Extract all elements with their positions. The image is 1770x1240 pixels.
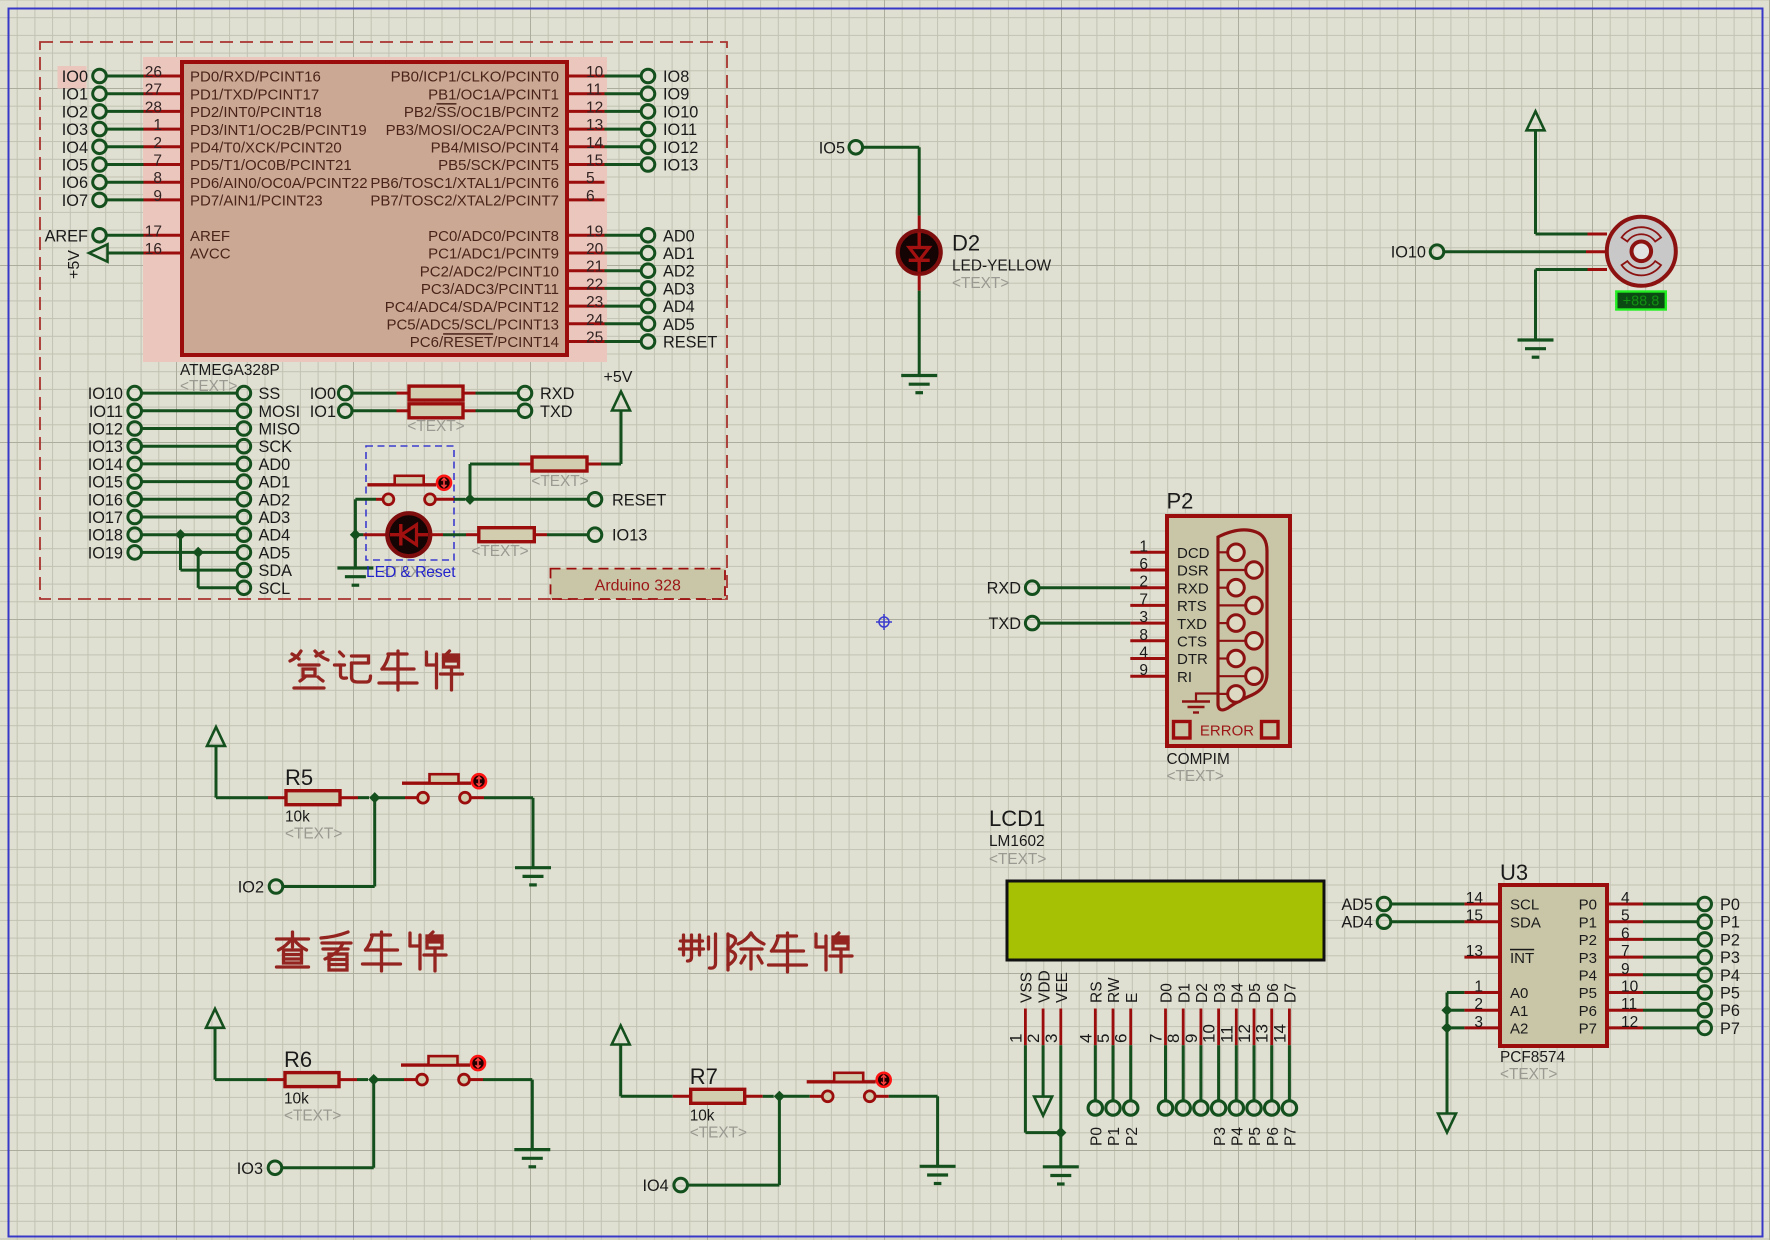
- svg-text:AD5: AD5: [259, 544, 291, 562]
- svg-text:15: 15: [586, 153, 603, 170]
- svg-text:AD1: AD1: [259, 474, 291, 492]
- terminal on LCD pin D4: [1229, 1045, 1246, 1146]
- svg-text:IO9: IO9: [663, 86, 689, 104]
- svg-text:14: 14: [586, 135, 604, 152]
- svg-text:IO13: IO13: [88, 438, 123, 456]
- svg-text:PB3/MOSI/OC2A/PCINT3: PB3/MOSI/OC2A/PCINT3: [386, 122, 559, 139]
- terminal RESET: [588, 491, 666, 509]
- wire button to LED branch: [350, 499, 361, 540]
- sheet origin marker: [876, 614, 892, 630]
- P2 pin 1 DCD: [1130, 538, 1209, 562]
- pin 24 PC5 with terminal AD5: [386, 312, 694, 334]
- svg-text:R7: R7: [690, 1064, 718, 1089]
- terminal pair IO17 to AD3: [88, 509, 291, 527]
- motor rpm display +88.8: [1616, 292, 1666, 310]
- terminal pair IO10 to SS: [88, 385, 281, 403]
- terminal on LCD pin D2: [1194, 1045, 1208, 1115]
- svg-text:PD6/AIN0/OC0A/PCINT22: PD6/AIN0/OC0A/PCINT22: [190, 175, 368, 192]
- terminal pair IO15 to AD1: [88, 474, 291, 492]
- display LCD1 LM1602: [989, 806, 1324, 960]
- svg-text:P0: P0: [1720, 896, 1740, 914]
- LED D1 (pin13 indicator): [355, 513, 430, 556]
- wire TXD to P2: [1039, 622, 1130, 625]
- svg-text:6: 6: [1139, 556, 1148, 573]
- svg-text:8: 8: [1139, 627, 1148, 644]
- svg-text:PB6/TOSC1/XTAL1/PCINT6: PB6/TOSC1/XTAL1/PCINT6: [370, 175, 559, 192]
- svg-text:IO11: IO11: [663, 121, 697, 139]
- svg-text:P2: P2: [1124, 1127, 1141, 1146]
- svg-text:AREF: AREF: [45, 227, 88, 245]
- U3 pin 13 INT: [1464, 943, 1534, 967]
- terminal pair IO11 to MOSI: [89, 403, 300, 421]
- terminal TXD (P2): [988, 615, 1039, 633]
- svg-text:RESET: RESET: [612, 491, 666, 509]
- pin 16 AVCC with +5V power terminal: [66, 241, 231, 279]
- terminal SCL: [237, 580, 290, 598]
- P2 pin 9 RI: [1130, 662, 1192, 686]
- ground (R7 section): [920, 1096, 956, 1183]
- svg-text:RTS: RTS: [1177, 598, 1207, 615]
- pin 11 PB1 with terminal IO9: [428, 82, 689, 104]
- svg-text:14: 14: [1270, 1024, 1289, 1043]
- svg-text:PB5/SCK/PCINT5: PB5/SCK/PCINT5: [438, 157, 559, 174]
- svg-text:E: E: [1124, 993, 1141, 1003]
- pin 9 PD7 with terminal IO7: [62, 188, 323, 210]
- pin 6 PB7 (no connection): [370, 188, 604, 210]
- svg-text:LCD1: LCD1: [989, 806, 1045, 831]
- caption 查看车牌 (view plate): [277, 932, 447, 971]
- svg-text:IO13: IO13: [663, 157, 698, 175]
- wire IO5 to D2: [863, 147, 920, 231]
- svg-text:P3: P3: [1579, 950, 1597, 967]
- wire LCD VSS to ground net: [1025, 1045, 1060, 1132]
- terminal AD4 (U3 SDA): [1341, 914, 1464, 932]
- svg-text:6: 6: [1621, 925, 1630, 942]
- motor M1 (DC motor): [1607, 217, 1676, 286]
- LCD1 pin 9 D2: [1182, 983, 1211, 1045]
- push-button reset: [355, 476, 465, 505]
- terminal on LCD pin E: [1124, 1045, 1141, 1146]
- pin 28 PD2 with terminal IO2: [62, 99, 322, 121]
- push-button (R7 section): [779, 1073, 937, 1102]
- svg-text:CTS: CTS: [1177, 634, 1207, 651]
- op: selection highlight around ATMEGA328P: [143, 57, 607, 362]
- svg-text:AD1: AD1: [663, 245, 695, 263]
- svg-text:1: 1: [153, 117, 162, 134]
- svg-text:IO2: IO2: [62, 103, 88, 121]
- svg-text:27: 27: [145, 82, 162, 99]
- terminal RXD (P2): [987, 580, 1039, 598]
- svg-text:AD0: AD0: [259, 456, 291, 474]
- svg-text:AD4: AD4: [1341, 914, 1373, 932]
- svg-text:IO18: IO18: [88, 527, 123, 545]
- terminal on LCD pin D7: [1282, 1045, 1299, 1146]
- svg-text:10k: 10k: [285, 809, 310, 826]
- svg-text:<TEXT>: <TEXT>: [471, 543, 528, 560]
- svg-text:P2: P2: [1167, 489, 1194, 514]
- svg-text:RXD: RXD: [540, 385, 574, 403]
- pin 7 PD5 with terminal IO5: [62, 153, 352, 175]
- ground (motor): [1518, 338, 1554, 341]
- svg-text:RESET: RESET: [663, 334, 717, 352]
- svg-text:P1: P1: [1579, 914, 1597, 931]
- push-button (R6 section): [374, 1056, 533, 1085]
- U3 pin 4 P0 with terminal P0: [1579, 890, 1740, 914]
- svg-text:PC1/ADC1/PCINT9: PC1/ADC1/PCINT9: [428, 246, 559, 263]
- svg-text:<TEXT>: <TEXT>: [989, 851, 1046, 868]
- svg-text:SCK: SCK: [259, 438, 293, 456]
- ground (LED branch): [337, 535, 373, 586]
- P2 pin 3 TXD: [1130, 609, 1207, 633]
- svg-text:U3: U3: [1500, 860, 1528, 885]
- svg-text:4: 4: [1139, 645, 1148, 662]
- LCD1 pin 6 E: [1112, 993, 1141, 1046]
- svg-text:13: 13: [1466, 943, 1483, 960]
- svg-text:7: 7: [1621, 943, 1630, 960]
- resistor R7 10k: [621, 1064, 774, 1142]
- svg-text:5: 5: [586, 170, 595, 187]
- svg-text:D4: D4: [1230, 983, 1247, 1003]
- LED D2 LED-YELLOW: [898, 231, 1052, 292]
- svg-text:<TEXT>: <TEXT>: [285, 826, 342, 843]
- svg-text:P0: P0: [1089, 1127, 1106, 1146]
- svg-text:SCL: SCL: [1510, 897, 1539, 914]
- terminal on LCD pin RS: [1088, 1045, 1105, 1146]
- wire R6 node to IO3: [282, 1080, 374, 1168]
- resistor LED series to IO13: [430, 528, 588, 560]
- svg-text:AD5: AD5: [1341, 896, 1373, 914]
- svg-text:10k: 10k: [690, 1107, 715, 1124]
- caption 删除车牌 (delete plate): [680, 933, 853, 972]
- svg-text:10: 10: [586, 64, 604, 81]
- U3 pin 2 A1: [1464, 996, 1528, 1020]
- svg-text:AD3: AD3: [259, 509, 291, 527]
- svg-text:8: 8: [1164, 1034, 1183, 1043]
- terminal pair IO14 to AD0: [88, 456, 291, 474]
- svg-text:PB7/TOSC2/XTAL2/PCINT7: PB7/TOSC2/XTAL2/PCINT7: [370, 193, 559, 210]
- ground (D2): [901, 274, 937, 393]
- svg-text:8: 8: [153, 170, 162, 187]
- svg-text:RS: RS: [1089, 981, 1106, 1003]
- terminal on LCD pin RW: [1106, 1045, 1123, 1146]
- svg-text:2: 2: [1474, 996, 1483, 1013]
- svg-text:AD3: AD3: [663, 280, 695, 298]
- svg-text:+5V: +5V: [604, 369, 633, 386]
- svg-text:PD1/TXD/PCINT17: PD1/TXD/PCINT17: [190, 86, 319, 103]
- svg-text:IO1: IO1: [310, 403, 336, 421]
- power +5V terminal (reset pull-up): [604, 369, 633, 464]
- svg-text:MISO: MISO: [259, 421, 301, 439]
- P2 pin 8 CTS: [1130, 627, 1207, 651]
- svg-text:IO4: IO4: [62, 139, 88, 157]
- svg-text:IO17: IO17: [88, 509, 123, 527]
- terminal on LCD pin D3: [1211, 1045, 1228, 1146]
- svg-text:4: 4: [1076, 1034, 1095, 1043]
- svg-text:1: 1: [1139, 538, 1148, 555]
- svg-text:P6: P6: [1265, 1127, 1282, 1146]
- svg-text:IO3: IO3: [237, 1160, 263, 1178]
- svg-text:IO6: IO6: [62, 174, 88, 192]
- svg-text:20: 20: [586, 241, 604, 258]
- svg-text:3: 3: [1139, 609, 1148, 626]
- terminal RXD: [518, 385, 574, 403]
- terminal IO5: [819, 139, 863, 157]
- svg-text:17: 17: [145, 223, 162, 240]
- svg-text:<TEXT>: <TEXT>: [407, 418, 464, 435]
- junction R6/button node: [368, 1074, 379, 1085]
- junction R5/button node: [369, 792, 380, 803]
- svg-text:AD4: AD4: [663, 298, 695, 316]
- resistor R6 10k: [215, 1047, 368, 1125]
- wire LCD VEE to ground: [1055, 1045, 1066, 1166]
- LCD1 pin 8 D1: [1164, 983, 1193, 1045]
- resistor R5 10k: [216, 765, 369, 843]
- svg-text:AD2: AD2: [663, 263, 695, 281]
- svg-text:<TEXT>: <TEXT>: [531, 473, 588, 490]
- terminal TXD: [518, 403, 572, 421]
- svg-text:RW: RW: [1106, 977, 1123, 1003]
- wire motor bottom pin to ground: [1536, 270, 1608, 340]
- P2 pin 6 DSR: [1130, 556, 1209, 580]
- terminal pair IO13 to SCK: [88, 438, 292, 456]
- svg-text:VSS: VSS: [1019, 972, 1036, 1003]
- wire RXD to P2: [1039, 586, 1130, 589]
- svg-text:+5V: +5V: [66, 250, 83, 279]
- svg-text:DTR: DTR: [1177, 651, 1208, 668]
- svg-text:2: 2: [153, 135, 162, 152]
- svg-text:PD7/AIN1/PCINT23: PD7/AIN1/PCINT23: [190, 193, 323, 210]
- wire U3 address pins A0 A1 A2 common: [1441, 993, 1464, 1114]
- P2 shield ground: [1182, 694, 1219, 713]
- svg-text:IO15: IO15: [88, 474, 123, 492]
- U3 pin 7 P3 with terminal P3: [1579, 943, 1740, 967]
- svg-text:IO14: IO14: [88, 456, 123, 474]
- svg-text:10: 10: [1200, 1024, 1219, 1043]
- svg-text:+88.8: +88.8: [1623, 293, 1660, 309]
- svg-text:IO5: IO5: [62, 157, 88, 175]
- svg-text:Arduino 328: Arduino 328: [595, 578, 681, 595]
- IC U1 ATMEGA328P body: [182, 62, 567, 355]
- pin 5 PB6 (no connection): [370, 170, 604, 192]
- svg-text:R5: R5: [285, 765, 313, 790]
- svg-text:P1: P1: [1720, 914, 1740, 932]
- svg-text:IO0: IO0: [62, 68, 88, 86]
- svg-text:3: 3: [1042, 1034, 1061, 1043]
- svg-text:7: 7: [153, 153, 162, 170]
- svg-text:1: 1: [1474, 979, 1483, 996]
- svg-text:23: 23: [586, 294, 603, 311]
- pin 8 PD6 with terminal IO6: [62, 170, 368, 192]
- svg-text:IO19: IO19: [88, 544, 123, 562]
- svg-text:AD5: AD5: [663, 316, 695, 334]
- svg-text:10: 10: [1621, 979, 1639, 996]
- svg-text:<TEXT>: <TEXT>: [952, 275, 1009, 292]
- svg-text:12: 12: [1621, 1014, 1638, 1031]
- svg-text:D6: D6: [1265, 983, 1282, 1003]
- svg-text:ERROR: ERROR: [1200, 723, 1254, 740]
- terminal AD5 (U3 SCL): [1341, 896, 1464, 914]
- svg-text:P7: P7: [1579, 1021, 1597, 1038]
- U3 pin 10 P5 with terminal P5: [1579, 979, 1740, 1003]
- Arduino 328 title box: [551, 569, 726, 599]
- LCD1 pin 7 D0: [1147, 983, 1176, 1045]
- svg-text:PCF8574: PCF8574: [1500, 1049, 1565, 1066]
- svg-text:PB1/OC1A/PCINT1: PB1/OC1A/PCINT1: [428, 86, 559, 103]
- svg-text:SS: SS: [259, 385, 281, 403]
- svg-text:D1: D1: [1176, 983, 1193, 1003]
- svg-text:PB2/SS/OC1B/PCINT2: PB2/SS/OC1B/PCINT2: [404, 104, 559, 121]
- pin 15 PB5 with terminal IO13: [438, 153, 698, 175]
- svg-text:IO12: IO12: [663, 139, 698, 157]
- svg-text:<TEXT>: <TEXT>: [690, 1124, 747, 1141]
- svg-text:LM1602: LM1602: [989, 833, 1045, 850]
- power +5V terminal (R7 section): [612, 1026, 630, 1097]
- P2 pin 7 RTS: [1130, 591, 1206, 615]
- svg-text:9: 9: [1182, 1034, 1201, 1043]
- svg-text:SDA: SDA: [259, 562, 293, 580]
- svg-text:21: 21: [586, 259, 603, 276]
- P2 DB9 face: [1218, 530, 1267, 710]
- svg-text:25: 25: [586, 330, 603, 347]
- svg-text:IO10: IO10: [663, 103, 698, 121]
- svg-text:19: 19: [586, 223, 603, 240]
- svg-text:IO11: IO11: [89, 403, 123, 421]
- wire IO10 to motor centre pin: [1444, 250, 1607, 253]
- U3 pin 15 SDA: [1464, 908, 1540, 932]
- svg-text:DCD: DCD: [1177, 545, 1210, 562]
- svg-text:P7: P7: [1720, 1020, 1740, 1038]
- LCD1 pin 11 D4: [1217, 983, 1246, 1045]
- svg-text:22: 22: [586, 276, 603, 293]
- pin 13 PB3 with terminal IO11: [386, 117, 697, 139]
- svg-text:2: 2: [1139, 574, 1148, 591]
- U3 pin 9 P4 with terminal P4: [1579, 961, 1740, 985]
- svg-text:VDD: VDD: [1036, 970, 1053, 1003]
- svg-text:11: 11: [1621, 996, 1637, 1013]
- svg-text:R6: R6: [284, 1047, 312, 1072]
- pin 1 PD3 with terminal IO3: [62, 117, 367, 139]
- U3 pin 12 P7 with terminal P7: [1579, 1014, 1740, 1038]
- svg-text:P4: P4: [1720, 967, 1740, 985]
- IC U3 PCF8574 body: [1500, 860, 1607, 1083]
- svg-text:15: 15: [1466, 908, 1483, 925]
- LCD1 pin 1 VSS: [1006, 972, 1035, 1045]
- svg-text:<TEXT>: <TEXT>: [1500, 1066, 1557, 1083]
- svg-text:5: 5: [1094, 1034, 1113, 1043]
- svg-text:AVCC: AVCC: [190, 246, 231, 263]
- svg-text:P6: P6: [1579, 1003, 1597, 1020]
- svg-text:7: 7: [1147, 1034, 1166, 1043]
- pin 21 PC2 with terminal AD2: [420, 259, 695, 281]
- P2 pin 2 RXD: [1130, 574, 1209, 598]
- svg-text:<TEXT>: <TEXT>: [1167, 768, 1224, 785]
- terminal IO0: [310, 385, 352, 403]
- pin 17 AREF with terminal AREF: [45, 223, 230, 245]
- svg-text:IO3: IO3: [62, 121, 88, 139]
- svg-text:AD4: AD4: [259, 527, 291, 545]
- LCD1 pin 4 RS: [1076, 981, 1105, 1045]
- svg-text:12: 12: [586, 99, 603, 116]
- pin 25 PC6 with terminal RESET: [410, 330, 718, 352]
- svg-text:D3: D3: [1212, 983, 1229, 1003]
- U3 pin 14 SCL: [1464, 890, 1539, 914]
- LCD1 pin 5 RW: [1094, 977, 1123, 1045]
- junction R7/button node: [774, 1091, 785, 1102]
- U3 pin 1 A0: [1464, 979, 1528, 1003]
- svg-text:PD4/T0/XCK/PCINT20: PD4/T0/XCK/PCINT20: [190, 140, 342, 157]
- svg-text:ATMEGA328P: ATMEGA328P: [180, 362, 280, 379]
- power terminal (down arrow) on U3 address net: [1438, 1114, 1456, 1133]
- svg-text:PC2/ADC2/PCINT10: PC2/ADC2/PCINT10: [420, 263, 559, 280]
- terminal IO3: [237, 1160, 282, 1178]
- ground (LCD): [1043, 1165, 1079, 1168]
- U3 pin 5 P1 with terminal P1: [1579, 908, 1740, 932]
- svg-text:P1: P1: [1106, 1127, 1123, 1146]
- wire IO18/AD4 node to SDA: [175, 529, 237, 570]
- power +5V terminal (R5 section): [207, 727, 225, 798]
- svg-text:P7: P7: [1283, 1127, 1300, 1146]
- svg-text:IO5: IO5: [819, 139, 845, 157]
- svg-text:DSR: DSR: [1177, 563, 1209, 580]
- svg-text:P4: P4: [1230, 1127, 1247, 1146]
- pin 26 PD0 with terminal IO0: [62, 64, 321, 86]
- svg-text:PC6/RESET/PCINT14: PC6/RESET/PCINT14: [410, 334, 559, 351]
- svg-text:11: 11: [586, 82, 602, 99]
- svg-text:7: 7: [1139, 591, 1148, 608]
- svg-text:D2: D2: [952, 231, 980, 256]
- svg-text:IO0: IO0: [310, 385, 336, 403]
- ground (R6 section): [514, 1080, 550, 1167]
- P2 pin 4 DTR: [1130, 645, 1208, 669]
- pin 27 PD1 with terminal IO1: [62, 82, 319, 104]
- LCD1 pin 12 D5: [1235, 983, 1264, 1045]
- svg-text:<TEXT>: <TEXT>: [284, 1108, 341, 1125]
- svg-text:AD2: AD2: [259, 491, 291, 509]
- svg-text:16: 16: [145, 241, 162, 258]
- svg-text:P3: P3: [1212, 1127, 1229, 1146]
- LCD1 pin 2 VDD: [1024, 970, 1053, 1045]
- svg-text:PC0/ADC0/PCINT8: PC0/ADC0/PCINT8: [428, 228, 559, 245]
- terminal pair IO16 to AD2: [88, 491, 291, 509]
- svg-text:IO10: IO10: [88, 385, 123, 403]
- svg-text:TXD: TXD: [988, 615, 1021, 633]
- pin 23 PC4 with terminal AD4: [385, 294, 695, 316]
- svg-text:IO16: IO16: [88, 491, 123, 509]
- wire R7 node to IO4: [688, 1096, 780, 1185]
- resistor RX IO0 to RXD: [352, 386, 518, 400]
- pin 12 PB2 with terminal IO10: [404, 99, 698, 121]
- power +5V terminal (R6 section): [206, 1009, 224, 1080]
- svg-text:AD0: AD0: [663, 227, 695, 245]
- svg-text:LED-YELLOW: LED-YELLOW: [952, 258, 1052, 275]
- svg-text:P4: P4: [1579, 968, 1597, 985]
- svg-text:TXD: TXD: [1177, 616, 1207, 633]
- svg-text:13: 13: [1253, 1024, 1272, 1043]
- svg-text:9: 9: [153, 188, 162, 205]
- wire IO19/AD5 node to SCL: [193, 547, 238, 588]
- terminal IO2: [238, 879, 283, 897]
- wire +5V to motor top pin: [1536, 233, 1608, 236]
- terminal SDA: [237, 562, 292, 580]
- svg-text:5: 5: [1621, 908, 1630, 925]
- terminal on LCD pin D6: [1265, 1045, 1282, 1146]
- svg-text:28: 28: [145, 99, 162, 116]
- svg-text:IO8: IO8: [663, 68, 689, 86]
- svg-text:RXD: RXD: [987, 580, 1021, 598]
- svg-text:RI: RI: [1177, 669, 1192, 686]
- terminal IO10 (motor): [1391, 244, 1444, 262]
- power +5V terminal (motor): [1527, 111, 1545, 234]
